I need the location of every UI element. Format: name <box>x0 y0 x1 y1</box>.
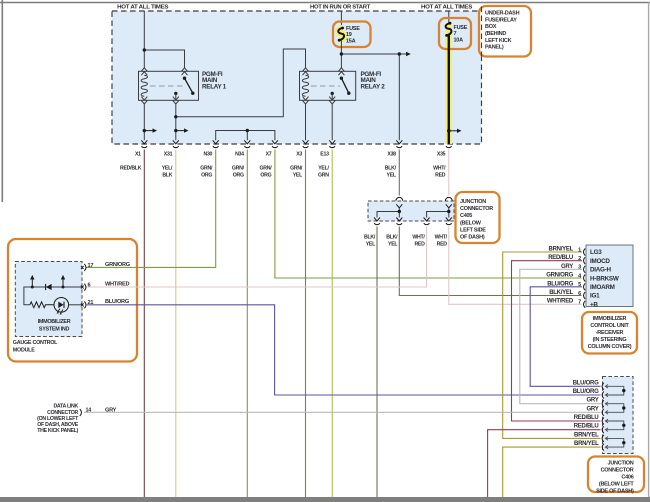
gauge internal up arrow 2 <box>61 275 65 289</box>
svg-text:WHT/RED: WHT/RED <box>547 299 574 305</box>
svg-text:IMMOBILIZER: IMMOBILIZER <box>38 319 71 325</box>
gauge pin 17 terminal <box>81 263 93 271</box>
C405 entry terminal X38 <box>396 197 403 217</box>
wire RED/BLU C406 row6 down off page <box>488 430 601 497</box>
gauge control module callout box <box>8 239 137 362</box>
svg-text:PANEL): PANEL) <box>485 45 504 51</box>
fuse F19 highlight <box>338 28 344 40</box>
C406 internal pair BLU/ORG <box>605 385 625 397</box>
svg-text:DIAG-H: DIAG-H <box>590 267 611 274</box>
svg-text:LEFT KICK: LEFT KICK <box>485 38 512 44</box>
wire BRN/YEL immobilizer pin1 to C406 row7 <box>503 252 601 438</box>
svg-text:7: 7 <box>454 31 457 37</box>
wire BLU/ORG immobilizer pin5 to C406 row1 <box>530 287 600 387</box>
LED immobilizer system indicator <box>54 298 82 315</box>
svg-text:YEL: YEL <box>387 172 397 178</box>
svg-text:HOT AT ALL TIMES: HOT AT ALL TIMES <box>117 5 169 11</box>
wire RED/BLU immobilizer pin2 to C406 row5 <box>512 261 601 421</box>
gauge internal diode (pointing left) <box>46 284 52 290</box>
svg-text:X38: X38 <box>387 152 396 158</box>
relay2 switch <box>331 77 351 101</box>
wire color labels under fuse box <box>120 165 446 178</box>
relay1 mechanical link (dashed) <box>150 85 183 87</box>
svg-text:THE KICK PANEL): THE KICK PANEL) <box>37 428 78 434</box>
relay2 mechanical link (dashed) <box>311 85 340 87</box>
wire fuse7 to X35 (thick) <box>448 35 450 144</box>
junction dot relay1 switch branch <box>174 115 177 118</box>
wire BLK/YEL C405 right branch to immobilizer pin6 IG1 <box>399 227 581 296</box>
wire WHT/RED C405 right branch to immobilizer pin7 +B <box>449 227 582 305</box>
relay2 switch pin top connector <box>338 68 344 75</box>
svg-text:SIDE OF DASH): SIDE OF DASH) <box>596 488 634 494</box>
svg-text:YEL: YEL <box>366 242 376 248</box>
svg-text:CONTROL UNIT: CONTROL UNIT <box>590 323 629 329</box>
label HOT IN RUN OR START <box>310 5 371 11</box>
gauge pin 21 terminal <box>81 300 93 308</box>
immobilizer system ind label <box>38 319 71 333</box>
svg-text:HOT IN RUN OR START: HOT IN RUN OR START <box>310 5 371 11</box>
relay1 switch pin bottom connector <box>173 97 179 104</box>
wire X31 YEL/BLK down <box>175 150 177 498</box>
relay U1 PGM-FI MAIN RELAY 1 box <box>139 71 199 100</box>
connector exits at fuse box bottom (chevrons above, cups below) <box>141 140 451 147</box>
svg-text:(BELOW: (BELOW <box>460 220 482 226</box>
immobilizer pin names <box>590 249 619 308</box>
wire BRN/YEL C406 row8 down off page <box>503 447 601 497</box>
junction connector C406 callout <box>588 457 644 495</box>
svg-text:CONNECTOR: CONNECTOR <box>47 410 78 416</box>
C405 entry terminal X35 <box>445 197 452 217</box>
frame bottom bar <box>0 497 650 502</box>
svg-text:ORG: ORG <box>260 172 271 178</box>
fuse F7 wire from top <box>448 11 450 24</box>
svg-text:C405: C405 <box>460 213 472 219</box>
relay1 coil pin bottom connector <box>141 97 147 104</box>
svg-text:RED/BLU: RED/BLU <box>574 415 599 421</box>
wire relay2 coil bottom to X3 <box>305 104 307 140</box>
immobilizer system indicator box (dashed blue) <box>15 262 82 337</box>
C405 internal split BLK/YEL <box>377 210 401 218</box>
svg-text:ORG: ORG <box>233 172 244 178</box>
under-dash fuse/relay box callout <box>479 6 531 57</box>
wire X3 GRN/YEL down <box>305 150 307 498</box>
svg-text:IMMOBILIZER: IMMOBILIZER <box>593 316 627 322</box>
relay1 coil <box>141 75 147 96</box>
gauge pin 6 terminal <box>81 282 91 290</box>
svg-text:WHT/: WHT/ <box>433 165 446 171</box>
wire N34 GRN/ORG down <box>246 150 248 498</box>
svg-text:E13: E13 <box>320 152 329 158</box>
svg-text:HOT AT ALL TIMES: HOT AT ALL TIMES <box>421 5 473 11</box>
C406 wire labels <box>573 380 599 447</box>
svg-text:DATA LINK: DATA LINK <box>53 404 78 410</box>
svg-text:WHT/: WHT/ <box>435 235 448 241</box>
svg-text:19: 19 <box>346 32 352 38</box>
frame right border <box>648 2 650 497</box>
svg-text:YEL: YEL <box>293 172 303 178</box>
C406 internal pair GRY <box>605 402 625 414</box>
svg-text:JUNCTION: JUNCTION <box>460 199 486 205</box>
svg-text:YEL/: YEL/ <box>162 165 173 171</box>
relay2 coil pin top connector <box>303 68 309 75</box>
svg-text:OF DASH, ABOVE: OF DASH, ABOVE <box>37 422 79 428</box>
svg-text:JUNCTION: JUNCTION <box>608 460 634 466</box>
svg-text:X1: X1 <box>135 152 141 158</box>
immobilizer control unit callout <box>582 312 637 354</box>
label HOT AT ALL TIMES (left) <box>117 5 169 11</box>
svg-text:4: 4 <box>578 273 582 279</box>
svg-text:GRN/ORG: GRN/ORG <box>105 262 130 268</box>
relay2 switch pin bottom connector <box>329 97 335 104</box>
svg-text:RED/BLK: RED/BLK <box>120 165 142 171</box>
svg-text:(ON LOWER LEFT: (ON LOWER LEFT <box>37 416 79 422</box>
svg-text:GRN: GRN <box>318 172 329 178</box>
relay2 coil pin bottom connector <box>303 97 309 104</box>
fuse F7 and X35 wire highlight <box>446 24 453 144</box>
fuse F19 element <box>338 27 344 42</box>
wire X38 BLK/YEL to junction C405 <box>398 150 400 196</box>
wire BLK/YEL C405 left branch down <box>376 227 378 498</box>
svg-text:+B: +B <box>590 301 598 308</box>
svg-text:-RECEIVER: -RECEIVER <box>596 330 624 336</box>
junction connector C406 box <box>603 377 634 454</box>
svg-text:N30: N30 <box>203 152 212 158</box>
fuse F7 callout box <box>439 18 471 49</box>
svg-text:7: 7 <box>578 300 581 306</box>
gauge wire labels <box>105 262 130 305</box>
svg-text:IMOCD: IMOCD <box>590 258 610 265</box>
under-dash fuse/relay box (dashed blue) <box>112 11 482 144</box>
wire X35 WHT/RED to junction C405 <box>448 150 450 196</box>
svg-text:COLUMN COVER): COLUMN COVER) <box>588 344 632 350</box>
gauge control module label <box>13 340 58 354</box>
svg-text:X3: X3 <box>296 152 302 158</box>
svg-text:BLU/ORG: BLU/ORG <box>573 389 599 395</box>
svg-text:6: 6 <box>88 282 91 288</box>
svg-text:BOX: BOX <box>485 24 497 30</box>
wire feed to relay 1 from hot at all times <box>144 11 184 68</box>
C406 pin brackets <box>602 383 604 451</box>
svg-text:RELAY 1: RELAY 1 <box>202 84 227 91</box>
relay1 label <box>202 71 227 91</box>
DLC pin 14 terminal <box>80 407 117 416</box>
gauge internal up arrow 1 <box>30 275 34 289</box>
svg-text:GRN/: GRN/ <box>232 165 245 171</box>
svg-text:SYSTEM IND: SYSTEM IND <box>39 327 70 333</box>
junction dot on bus at N34 <box>246 129 249 132</box>
svg-text:LG3: LG3 <box>590 249 602 256</box>
svg-text:(IN STEERING: (IN STEERING <box>593 337 627 343</box>
svg-text:FUSE/RELAY: FUSE/RELAY <box>485 17 517 23</box>
svg-text:ORG: ORG <box>201 172 212 178</box>
svg-text:CONNECTOR: CONNECTOR <box>460 206 493 212</box>
fuse F7 label <box>454 25 468 44</box>
gauge internal line pin6 <box>24 287 82 305</box>
wire WHT/RED C405 left branch to gauge pin6 <box>86 227 427 288</box>
junction dot and branch arrow on X1 wire <box>143 128 157 132</box>
svg-text:RED: RED <box>437 242 448 248</box>
svg-text:BLK/: BLK/ <box>385 165 397 171</box>
svg-text:MODULE: MODULE <box>13 348 35 354</box>
svg-text:IG1: IG1 <box>590 293 600 300</box>
svg-text:WHT/RED: WHT/RED <box>105 281 129 287</box>
svg-text:CONNECTOR: CONNECTOR <box>601 467 634 473</box>
frame top border <box>0 2 650 4</box>
svg-text:GRY: GRY <box>587 398 599 404</box>
svg-text:BLK/YEL: BLK/YEL <box>549 290 573 296</box>
svg-text:OF DASH): OF DASH) <box>460 235 485 241</box>
svg-text:(BELOW LEFT: (BELOW LEFT <box>599 481 635 487</box>
svg-text:X31: X31 <box>164 152 173 158</box>
svg-text:BRN/YEL: BRN/YEL <box>574 441 599 447</box>
wire GRY DLC pin14 to C406 row4 <box>84 411 601 413</box>
svg-text:GRN/ORG: GRN/ORG <box>546 273 573 279</box>
svg-text:6: 6 <box>578 291 581 297</box>
svg-text:IMOARM: IMOARM <box>590 284 615 291</box>
svg-text:17: 17 <box>88 263 94 269</box>
data link connector label <box>37 404 79 434</box>
label HOT AT ALL TIMES (right) <box>421 5 473 11</box>
svg-text:GRN/: GRN/ <box>200 165 213 171</box>
wire relay2 switch out to E13 <box>331 104 333 140</box>
wire X7 GRN/ORG to immobilizer pin4 <box>275 150 582 279</box>
junction dot X38 branch <box>398 52 401 55</box>
wire fuse19 to relay2 switch <box>340 40 342 68</box>
relay2 label <box>361 71 386 91</box>
wire X1 RED/BLK down <box>143 150 145 498</box>
wire N30 GRN/ORG to gauge pin17 <box>86 150 216 268</box>
resistor R (immobilizer ind) <box>30 302 54 308</box>
svg-text:YEL/: YEL/ <box>318 165 329 171</box>
svg-text:WHT/: WHT/ <box>412 235 425 241</box>
C405 internal split WHT/RED <box>427 210 451 218</box>
junction dot fuse19 branch <box>340 52 343 55</box>
relay U2 PGM-FI MAIN RELAY 2 box <box>300 71 356 100</box>
svg-text:LEFT SIDE: LEFT SIDE <box>460 227 486 233</box>
C405 exit wire labels <box>364 235 448 248</box>
svg-text:RED/BLU: RED/BLU <box>574 424 599 430</box>
immobilizer pin brackets and numbers <box>578 247 585 307</box>
svg-text:RELAY 2: RELAY 2 <box>361 84 386 91</box>
connector pin labels X1..X35 <box>135 152 446 158</box>
svg-text:H-BRKSW: H-BRKSW <box>590 275 619 282</box>
fuse F19 callout box <box>333 22 371 48</box>
C406 internal pair BRN/YEL <box>605 437 625 449</box>
frame left border <box>1 0 3 202</box>
wire relay1 switch out down and over to relay2 coil <box>176 49 306 140</box>
svg-text:YEL: YEL <box>388 242 398 248</box>
svg-text:FUSE: FUSE <box>346 26 360 32</box>
wire BLU/ORG gauge pin21 to C406 row2 <box>86 305 601 395</box>
fuse F19 label <box>346 26 360 45</box>
relay1 switch <box>174 77 194 101</box>
svg-text:X7: X7 <box>266 152 272 158</box>
svg-text:15A: 15A <box>346 38 356 44</box>
svg-text:BLK: BLK <box>162 172 172 178</box>
relay2 coil <box>302 75 308 96</box>
svg-text:X35: X35 <box>437 152 446 158</box>
svg-text:UNDER-DASH: UNDER-DASH <box>485 11 520 17</box>
relay1 switch pin top connector <box>182 68 188 75</box>
svg-text:GRN/: GRN/ <box>260 165 273 171</box>
junction connector C405 callout <box>456 192 500 243</box>
svg-text:(BEHIND: (BEHIND <box>485 31 506 37</box>
C405 exit terminals <box>374 218 452 225</box>
svg-text:C406: C406 <box>621 474 633 480</box>
wire GRY immobilizer pin3 to C406 row3 <box>520 269 601 403</box>
immobilizer wire labels <box>546 247 574 305</box>
svg-text:GRY: GRY <box>587 406 599 412</box>
svg-text:RED: RED <box>435 172 446 178</box>
svg-text:BRN/YEL: BRN/YEL <box>574 432 599 438</box>
wire fuse19 branch to X38 <box>341 52 410 140</box>
svg-text:GRN/: GRN/ <box>290 165 303 171</box>
svg-text:N34: N34 <box>235 152 244 158</box>
junction dot and branch arrow on X35 wire <box>447 129 462 133</box>
fuse F7 element <box>445 22 451 37</box>
junction dot and branch arrow on X31 wire <box>174 128 188 132</box>
relay1 coil pin top connector <box>141 68 147 75</box>
svg-text:BLU/ORG: BLU/ORG <box>573 380 599 386</box>
junction dot relay1 feed <box>143 48 146 51</box>
svg-text:BLK/: BLK/ <box>386 235 398 241</box>
svg-text:BLK/: BLK/ <box>364 235 376 241</box>
svg-text:RED: RED <box>414 242 425 248</box>
wire E13 YEL/GRN down <box>331 150 333 498</box>
svg-text:FUSE: FUSE <box>454 25 468 31</box>
immobilizer control unit box <box>586 245 633 307</box>
junction connector C405 box <box>368 201 454 221</box>
fuse F19 wire from top <box>340 11 342 28</box>
bus to N30 N34 X7 <box>216 131 275 141</box>
svg-text:10A: 10A <box>454 37 464 43</box>
wire relay1 coil bottom to X1 <box>143 104 145 140</box>
C406 internal pair RED/BLU <box>605 419 625 431</box>
svg-text:GAUGE CONTROL: GAUGE CONTROL <box>13 340 58 346</box>
